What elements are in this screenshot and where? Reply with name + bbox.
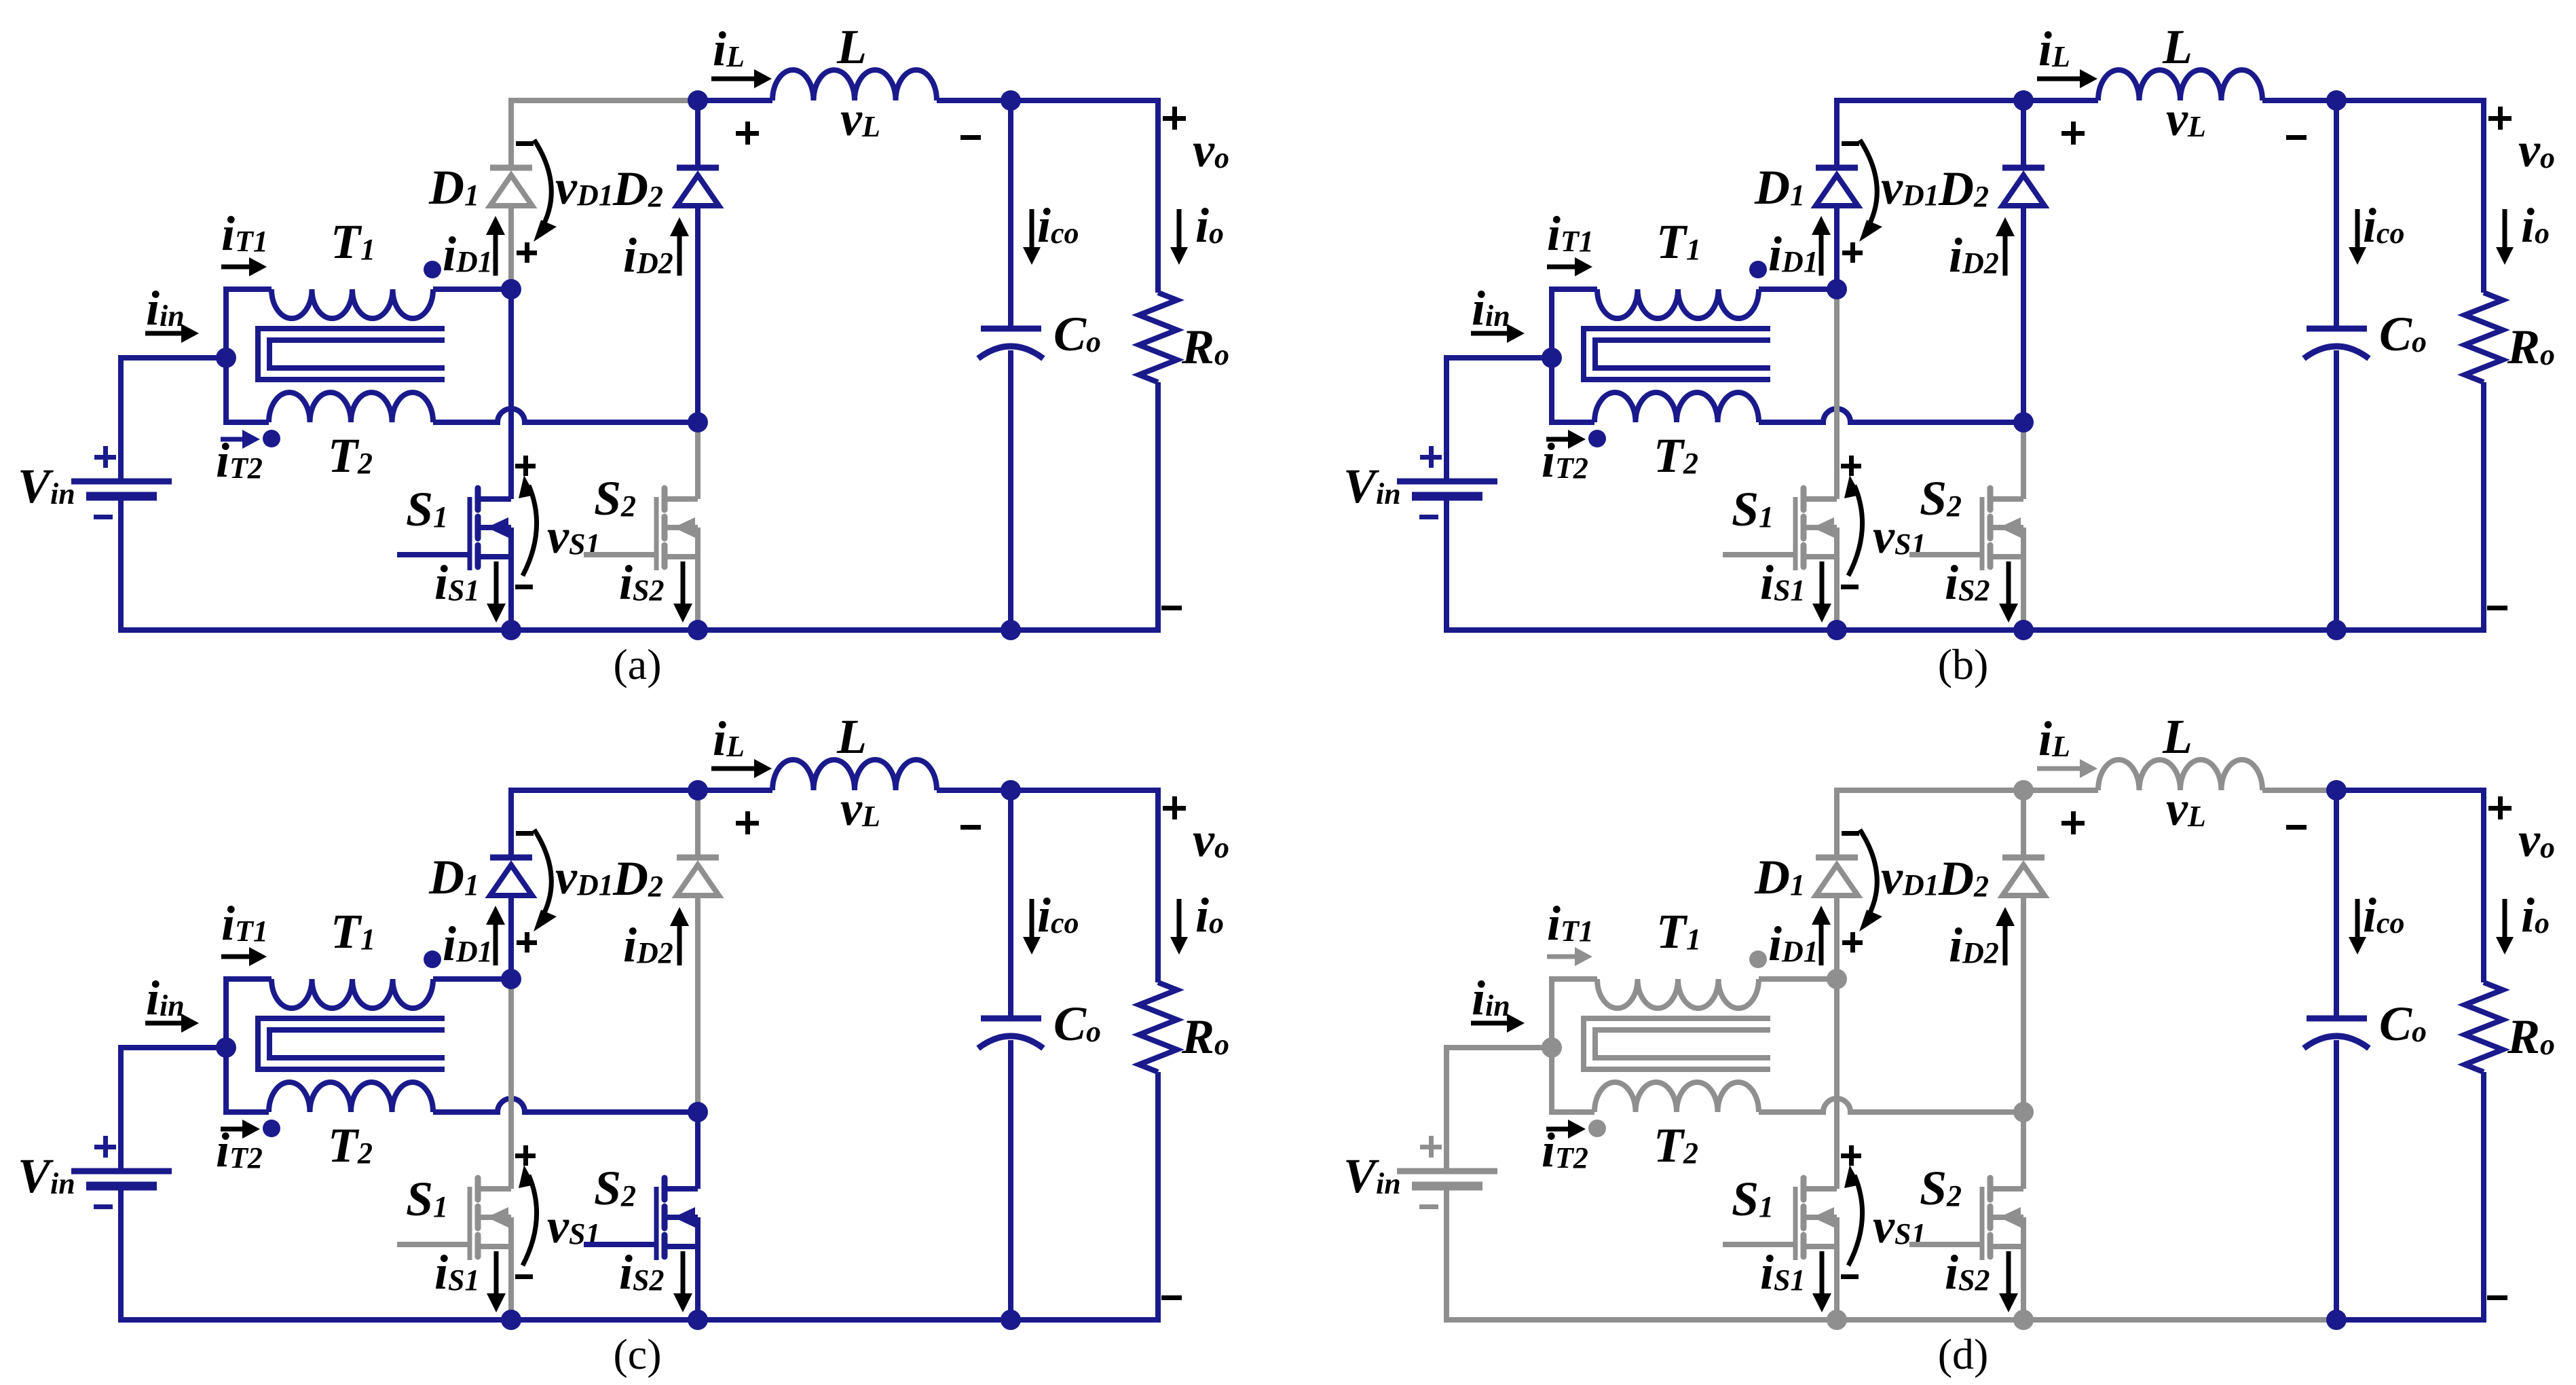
wire bottom rail (d) xyxy=(1446,1189,2336,1320)
node T1 right / D1 anode / S1 drain (d) xyxy=(1827,969,1847,989)
svg-text:(b): (b) xyxy=(1938,640,1989,688)
switch S2 MOSFET (b) xyxy=(2021,422,2026,499)
node T1 right / D1 anode / S1 drain (c) xyxy=(501,969,521,989)
svg-text:L: L xyxy=(836,709,867,764)
resistor Ro (b) xyxy=(2336,100,2484,293)
switch S1 MOSFET (c) xyxy=(508,979,514,1189)
transformer phase dot T2 (d) xyxy=(1588,1120,1606,1137)
node S1 source / bottom rail (a) xyxy=(501,620,521,640)
diode D1 (b) xyxy=(1834,206,1840,289)
voltage arc vD1 (c) xyxy=(534,830,551,919)
switch S1 MOSFET (b) xyxy=(1834,289,1840,499)
transformer winding T2 (c) xyxy=(269,1082,433,1112)
switch S2 MOSFET (a) xyxy=(695,422,701,499)
svg-text:L: L xyxy=(836,20,867,74)
transformer core (b) xyxy=(1584,329,1770,380)
node T1 right / D1 anode / S1 drain (a) xyxy=(501,279,521,299)
svg-text:(a): (a) xyxy=(613,640,661,688)
voltage source Vin (a) xyxy=(121,358,226,479)
labels + vL - (c) xyxy=(736,821,759,826)
labels + vL - (b) xyxy=(2061,131,2085,136)
svg-text:L: L xyxy=(2162,709,2192,764)
node input junction (a) xyxy=(216,348,236,368)
node Co bottom / bottom rail (c) xyxy=(1001,1310,1021,1330)
transformer phase dot T1 (b) xyxy=(1749,261,1767,278)
wire T2 to D2 column with hopover (a) xyxy=(433,409,698,422)
node T2 right / D2 anode / S2 drain (a) xyxy=(688,412,708,432)
svg-text:(d): (d) xyxy=(1938,1330,1989,1378)
voltage arc vS1 (b) xyxy=(1848,485,1863,576)
node D2 cathode / top rail (d) xyxy=(2013,780,2034,800)
wire top rail D2 node to L (a) xyxy=(698,98,772,103)
wire bottom rail (b) xyxy=(1446,499,2336,630)
labels + vo - (b) xyxy=(2488,116,2512,121)
node L right / Co top (b) xyxy=(2326,90,2347,111)
transformer winding T2 (b) xyxy=(1594,392,1759,422)
labels + vo - (a) xyxy=(1163,116,1186,121)
node S2 source / bottom rail (c) xyxy=(688,1310,708,1330)
wire bottom rail (c) xyxy=(121,1189,1011,1320)
wire bottom rail output side (d) xyxy=(2336,1317,2486,1323)
node L right / Co top (a) xyxy=(1001,90,1021,111)
node S1 source / bottom rail (d) xyxy=(1827,1310,1847,1330)
diode D1 (a) xyxy=(508,206,514,289)
capacitor Co (d) xyxy=(2334,790,2339,1018)
transformer core (a) xyxy=(258,329,445,380)
node D2 cathode / top rail (a) xyxy=(688,90,708,111)
svg-text:L: L xyxy=(2162,20,2192,74)
node Co bottom / bottom rail (d) xyxy=(2326,1310,2347,1330)
wire top rail D2 node to L (d) xyxy=(2023,788,2098,793)
diode D2 (b) xyxy=(2021,100,2026,168)
labels + vL - (a) xyxy=(736,131,759,136)
transformer phase dot T1 (a) xyxy=(424,261,441,278)
switch S1 MOSFET (d) xyxy=(1834,979,1840,1189)
labels + vo - (d) xyxy=(2488,806,2512,811)
capacitor Co (b) xyxy=(2334,100,2339,329)
diode D2 (a) xyxy=(695,100,701,168)
voltage arc vS1 (c) xyxy=(523,1175,537,1266)
inductor L (a) xyxy=(772,70,937,100)
voltage source Vin (d) xyxy=(1446,1048,1552,1168)
voltage arc vD1 (d) xyxy=(1860,830,1877,919)
inductor L (c) xyxy=(772,760,937,790)
resistor Ro (c) xyxy=(1011,790,1158,982)
node L right / Co top (d) xyxy=(2326,780,2347,800)
voltage arc vS1 (d) xyxy=(1848,1175,1863,1266)
voltage source Vin (c) xyxy=(121,1048,226,1168)
transformer core (d) xyxy=(1584,1018,1770,1069)
inductor L (d) xyxy=(2098,760,2262,790)
capacitor Co (a) xyxy=(1008,100,1013,329)
node input junction (b) xyxy=(1542,348,1562,368)
node S2 source / bottom rail (a) xyxy=(688,620,708,640)
switch S2 MOSFET (d) xyxy=(2021,1112,2026,1189)
transformer phase dot T2 (c) xyxy=(263,1120,280,1137)
node D2 cathode / top rail (b) xyxy=(2013,90,2034,111)
diode D2 (c) xyxy=(695,790,701,857)
labels + vL - (d) xyxy=(2061,821,2085,826)
transformer winding T1 (a) xyxy=(226,289,272,422)
wire T2 to D2 column with hopover (d) xyxy=(1759,1098,2023,1112)
node T1 right / D1 anode / S1 drain (b) xyxy=(1827,279,1847,299)
wire bottom rail (a) xyxy=(121,499,1011,630)
node input junction (c) xyxy=(216,1037,236,1058)
switch S1 MOSFET (a) xyxy=(508,289,514,499)
node input junction (d) xyxy=(1542,1037,1562,1058)
node S1 source / bottom rail (c) xyxy=(501,1310,521,1330)
wire T2 to D2 column with hopover (b) xyxy=(1759,409,2023,422)
node S2 source / bottom rail (b) xyxy=(2013,620,2034,640)
voltage arc vD1 (b) xyxy=(1860,140,1877,229)
voltage arc vD1 (a) xyxy=(534,140,551,229)
transformer winding T1 (b) xyxy=(1552,289,1597,422)
node D2 cathode / top rail (c) xyxy=(688,780,708,800)
wire top rail D2 node to L (c) xyxy=(698,788,772,793)
labels + vo - (c) xyxy=(1163,806,1186,811)
wire top rail D2 node to L (b) xyxy=(2023,98,2098,103)
node S1 source / bottom rail (b) xyxy=(1827,620,1847,640)
svg-text:(c): (c) xyxy=(613,1330,661,1378)
transformer phase dot T1 (c) xyxy=(424,950,441,968)
voltage arc vS1 (a) xyxy=(523,485,537,576)
resistor Ro (d) xyxy=(2336,790,2484,982)
transformer phase dot T2 (a) xyxy=(263,430,280,447)
node L right / Co top (c) xyxy=(1001,780,1021,800)
switch S2 MOSFET (c) xyxy=(695,1112,701,1189)
transformer winding T1 (d) xyxy=(1552,979,1597,1112)
node S2 source / bottom rail (d) xyxy=(2013,1310,2034,1330)
diode D2 (d) xyxy=(2021,790,2026,857)
wire bottom rail output side (b) xyxy=(2336,627,2486,633)
inductor L (b) xyxy=(2098,70,2262,100)
transformer winding T2 (d) xyxy=(1594,1082,1759,1112)
wire T2 to D2 column with hopover (c) xyxy=(433,1098,698,1112)
voltage source Vin (b) xyxy=(1446,358,1552,479)
transformer phase dot T2 (b) xyxy=(1588,430,1606,447)
node Co bottom / bottom rail (b) xyxy=(2326,620,2347,640)
node T2 right / D2 anode / S2 drain (b) xyxy=(2013,412,2034,432)
node T2 right / D2 anode / S2 drain (c) xyxy=(688,1102,708,1122)
transformer phase dot T1 (d) xyxy=(1749,950,1767,968)
node Co bottom / bottom rail (a) xyxy=(1001,620,1021,640)
wire bottom rail output side (a) xyxy=(1011,627,1161,633)
transformer core (c) xyxy=(258,1018,445,1069)
transformer winding T2 (a) xyxy=(269,392,433,422)
node T2 right / D2 anode / S2 drain (d) xyxy=(2013,1102,2034,1122)
transformer winding T1 (c) xyxy=(226,979,272,1112)
wire bottom rail output side (c) xyxy=(1011,1317,1161,1323)
resistor Ro (a) xyxy=(1011,100,1158,293)
diode D1 (d) xyxy=(1834,895,1840,979)
diode D1 (c) xyxy=(508,895,514,979)
capacitor Co (c) xyxy=(1008,790,1013,1018)
